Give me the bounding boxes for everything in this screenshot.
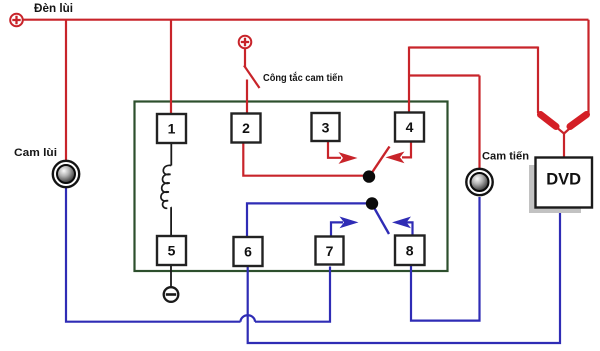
- svg-text:2: 2: [242, 120, 250, 136]
- svg-text:8: 8: [406, 243, 414, 259]
- svg-text:DVD: DVD: [546, 171, 581, 189]
- svg-text:1: 1: [168, 121, 176, 137]
- svg-text:Cam tiến: Cam tiến: [482, 151, 529, 163]
- svg-text:Cam lùi: Cam lùi: [14, 147, 57, 159]
- svg-text:6: 6: [244, 244, 252, 260]
- svg-text:5: 5: [168, 243, 176, 259]
- svg-text:7: 7: [326, 243, 334, 259]
- svg-text:Công tắc cam tiến: Công tắc cam tiến: [263, 71, 343, 84]
- svg-text:Đèn lùi: Đèn lùi: [34, 3, 73, 15]
- svg-text:4: 4: [406, 119, 414, 135]
- svg-text:3: 3: [322, 120, 330, 136]
